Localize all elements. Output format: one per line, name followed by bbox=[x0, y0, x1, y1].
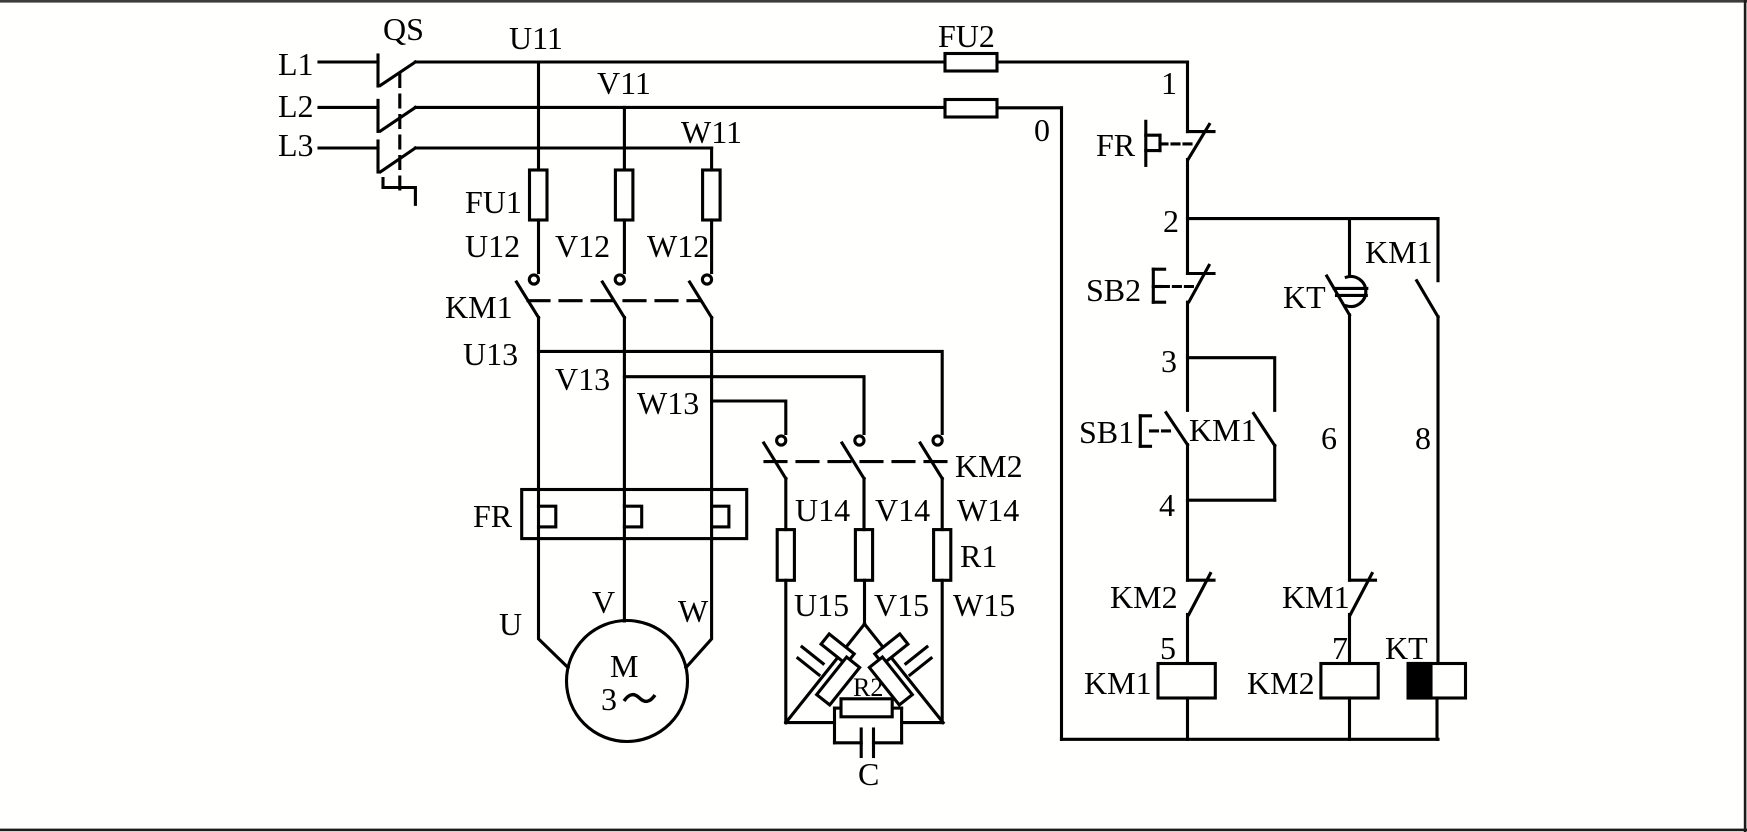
capacitor C lead right bbox=[874, 741, 902, 744]
contactor KM1 main pole V bbox=[602, 275, 624, 318]
svg-text:V: V bbox=[592, 584, 615, 620]
svg-text:V15: V15 bbox=[874, 587, 929, 623]
wire 0 vertical bbox=[1060, 108, 1063, 740]
wire V11 bbox=[415, 106, 945, 109]
svg-text:L1: L1 bbox=[278, 46, 314, 82]
wire V15 bbox=[863, 580, 866, 624]
wire KM2 coil to rail bbox=[1348, 698, 1351, 739]
wire 8 bbox=[1436, 317, 1439, 664]
svg-text:FR: FR bbox=[1096, 127, 1136, 163]
thermal relay FR heater box bbox=[522, 490, 747, 539]
border frame right bbox=[1744, 0, 1747, 832]
coil KM2 bbox=[1321, 664, 1378, 699]
wire U13 horizontal to KM2 bbox=[539, 351, 943, 433]
wire node 2 to SB1 bbox=[1186, 302, 1189, 410]
svg-text:KM2: KM2 bbox=[955, 448, 1023, 484]
wire delta left side bbox=[786, 624, 865, 723]
svg-text:KM1: KM1 bbox=[1084, 665, 1152, 701]
wire V to motor bbox=[623, 527, 626, 621]
fuse FU1 pole V bbox=[615, 170, 633, 220]
svg-text:W15: W15 bbox=[953, 587, 1015, 623]
svg-text:6: 6 bbox=[1321, 420, 1337, 456]
wire V13 vertical bbox=[623, 318, 626, 507]
capacitor C plate left bbox=[860, 729, 863, 757]
svg-text:SB1: SB1 bbox=[1079, 414, 1134, 450]
wire 1 vertical bbox=[1186, 62, 1189, 132]
svg-text:FU2: FU2 bbox=[938, 18, 995, 54]
FR heater element V bbox=[624, 506, 641, 527]
svg-text:W: W bbox=[678, 593, 709, 629]
wire W column upper bbox=[710, 148, 713, 170]
svg-text:W14: W14 bbox=[957, 492, 1019, 528]
wire U to motor bbox=[539, 527, 569, 668]
wire 8 branch upper bbox=[1436, 219, 1439, 281]
svg-text:W12: W12 bbox=[647, 228, 709, 264]
wire W12 bbox=[710, 220, 713, 273]
contact KT delayed NC bbox=[1327, 276, 1367, 315]
wire to KM2 coil bbox=[1348, 615, 1351, 664]
svg-text:KT: KT bbox=[1385, 630, 1428, 666]
svg-text:R1: R1 bbox=[960, 538, 997, 574]
resistor R1 element 3 bbox=[934, 530, 951, 581]
switch QS linkage dashed bbox=[398, 75, 401, 191]
fuse FU1 pole W bbox=[703, 170, 721, 220]
svg-text:U11: U11 bbox=[509, 20, 563, 56]
svg-text:4: 4 bbox=[1159, 487, 1175, 523]
svg-text:KM1: KM1 bbox=[445, 289, 513, 325]
svg-text:3: 3 bbox=[1161, 343, 1177, 379]
svg-text:0: 0 bbox=[1034, 112, 1050, 148]
coil KT with delay fill bbox=[1408, 664, 1465, 699]
svg-text:W11: W11 bbox=[681, 114, 742, 150]
svg-text:KM1: KM1 bbox=[1365, 234, 1433, 270]
capacitor left plates bbox=[802, 647, 823, 664]
resistor R2 stub left bbox=[835, 707, 842, 710]
wire W13 vertical bbox=[710, 318, 713, 507]
wire KT branch upper bbox=[1348, 219, 1351, 276]
contactor KM1 linkage dashed bbox=[528, 299, 700, 302]
resistor R1 element 1 bbox=[777, 530, 794, 581]
wire SB1 to KM2 contact bbox=[1186, 445, 1189, 581]
wire U12 bbox=[537, 220, 540, 273]
wire L2 input bbox=[319, 106, 378, 109]
resistor R2 stub right bbox=[892, 707, 901, 710]
contactor KM2 pole 2 bbox=[842, 436, 864, 479]
switch QS pole 3 bbox=[378, 141, 415, 172]
wire node 4 horizontal bbox=[1188, 499, 1275, 502]
wire V12 bbox=[623, 220, 626, 273]
svg-text:KM2: KM2 bbox=[1110, 579, 1178, 615]
fuse FU2 pole 1 bbox=[945, 54, 997, 72]
wire W14 bbox=[941, 479, 944, 530]
border frame top bbox=[0, 0, 1747, 3]
svg-text:KT: KT bbox=[1283, 279, 1326, 315]
wire L1 input bbox=[319, 60, 378, 63]
wire L3 input bbox=[319, 146, 378, 149]
wire U11 to FU2 out bbox=[997, 60, 1188, 63]
wire U13 vertical bbox=[537, 318, 540, 507]
wire node 1 to 2 bbox=[1186, 160, 1189, 274]
svg-text:2: 2 bbox=[1163, 203, 1179, 239]
wire U column upper bbox=[537, 62, 540, 170]
svg-text:U15: U15 bbox=[794, 587, 849, 623]
svg-text:KM2: KM2 bbox=[1247, 665, 1315, 701]
svg-text:7: 7 bbox=[1332, 630, 1348, 666]
svg-text:W13: W13 bbox=[637, 385, 699, 421]
wire W13 horizontal to KM2 bbox=[712, 401, 786, 434]
wire V11 to FU2 out bbox=[997, 106, 1062, 109]
contact KM1 aux NO bbox=[1254, 413, 1275, 445]
fuse FU1 pole U bbox=[530, 170, 548, 220]
wire V column upper bbox=[623, 107, 626, 170]
resistor R1 element 2 bbox=[855, 530, 872, 581]
capacitor left boxes bbox=[821, 634, 854, 664]
svg-text:1: 1 bbox=[1161, 65, 1177, 101]
pushbutton SB1 NO bbox=[1140, 413, 1187, 447]
switch QS pole 2 bbox=[378, 100, 415, 131]
svg-text:3: 3 bbox=[601, 681, 617, 717]
R2 C bracket left bbox=[833, 708, 836, 743]
svg-text:L2: L2 bbox=[278, 88, 314, 124]
wire KM1 coil to rail bbox=[1186, 698, 1189, 739]
wire node 2 horizontal bbox=[1188, 217, 1439, 220]
switch QS linkage handle bbox=[383, 179, 415, 205]
svg-text:KM1: KM1 bbox=[1282, 579, 1350, 615]
svg-text:KM1: KM1 bbox=[1189, 412, 1257, 448]
contact KM1 NC interlock bbox=[1350, 574, 1376, 615]
resistor R2 box bbox=[841, 699, 892, 717]
svg-text:L3: L3 bbox=[278, 127, 314, 163]
contactor KM2 pole 1 bbox=[764, 436, 786, 479]
capacitor group left delta side bbox=[759, 602, 883, 737]
svg-text:5: 5 bbox=[1160, 630, 1176, 666]
svg-text:C: C bbox=[858, 756, 879, 792]
switch QS pole 1 bbox=[378, 55, 415, 86]
wire KM1 aux lower bbox=[1273, 446, 1276, 501]
svg-text:U: U bbox=[499, 606, 522, 642]
svg-text:U12: U12 bbox=[465, 228, 520, 264]
border frame bottom bbox=[0, 829, 1747, 832]
wire 6 bbox=[1348, 315, 1351, 580]
svg-text:SB2: SB2 bbox=[1086, 272, 1141, 308]
svg-text:R2: R2 bbox=[853, 673, 883, 702]
svg-text:FR: FR bbox=[473, 498, 513, 534]
wire delta right side bbox=[865, 624, 944, 723]
svg-text:8: 8 bbox=[1415, 420, 1431, 456]
wire W15 bbox=[941, 580, 944, 722]
svg-text:V12: V12 bbox=[555, 228, 610, 264]
wire KT coil to rail bbox=[1435, 698, 1438, 739]
contactor KM1 main pole W bbox=[690, 275, 712, 318]
wire U14 bbox=[784, 479, 787, 530]
svg-text:V14: V14 bbox=[875, 492, 930, 528]
contactor KM1 main pole U bbox=[517, 275, 539, 318]
fuse FU2 pole 2 bbox=[945, 100, 997, 118]
wire node 3 horizontal bbox=[1188, 358, 1275, 411]
svg-text:M: M bbox=[610, 648, 638, 684]
wire delta bottom right bbox=[902, 721, 943, 724]
svg-text:V13: V13 bbox=[555, 361, 610, 397]
wire U15 bbox=[784, 580, 787, 722]
pushbutton SB2 NC bbox=[1153, 265, 1214, 302]
contactor KM2 pole 3 bbox=[920, 436, 942, 479]
coil KM1 bbox=[1158, 664, 1215, 699]
wire to KM1 coil bbox=[1186, 615, 1189, 664]
FR heater element W bbox=[712, 506, 729, 527]
svg-text:U13: U13 bbox=[463, 336, 518, 372]
svg-text:FU1: FU1 bbox=[465, 184, 522, 220]
capacitor right plates bbox=[906, 647, 927, 664]
motor M circle bbox=[567, 621, 688, 742]
svg-text:V11: V11 bbox=[597, 65, 651, 101]
wire V13 horizontal to KM2 bbox=[624, 377, 864, 434]
svg-text:U14: U14 bbox=[795, 492, 850, 528]
R2 C bracket right bbox=[900, 708, 903, 743]
capacitor right boxes bbox=[875, 634, 908, 664]
wire W to motor bbox=[686, 527, 712, 668]
contactor KM2 linkage dashed bbox=[765, 460, 948, 463]
wire V14 bbox=[862, 479, 865, 530]
capacitor C plate right bbox=[872, 729, 875, 757]
contact KM1 NO right bbox=[1417, 281, 1438, 317]
capacitor C lead left bbox=[835, 741, 862, 744]
svg-text:QS: QS bbox=[383, 11, 424, 47]
wire delta bottom left bbox=[786, 721, 835, 724]
contact KM2 NC interlock bbox=[1188, 574, 1215, 615]
contact FR NC bbox=[1146, 121, 1214, 165]
wire W11 bbox=[415, 146, 711, 149]
wire U11 bbox=[415, 60, 945, 63]
wire bottom rail bbox=[1062, 738, 1439, 741]
FR heater element U bbox=[539, 506, 556, 527]
